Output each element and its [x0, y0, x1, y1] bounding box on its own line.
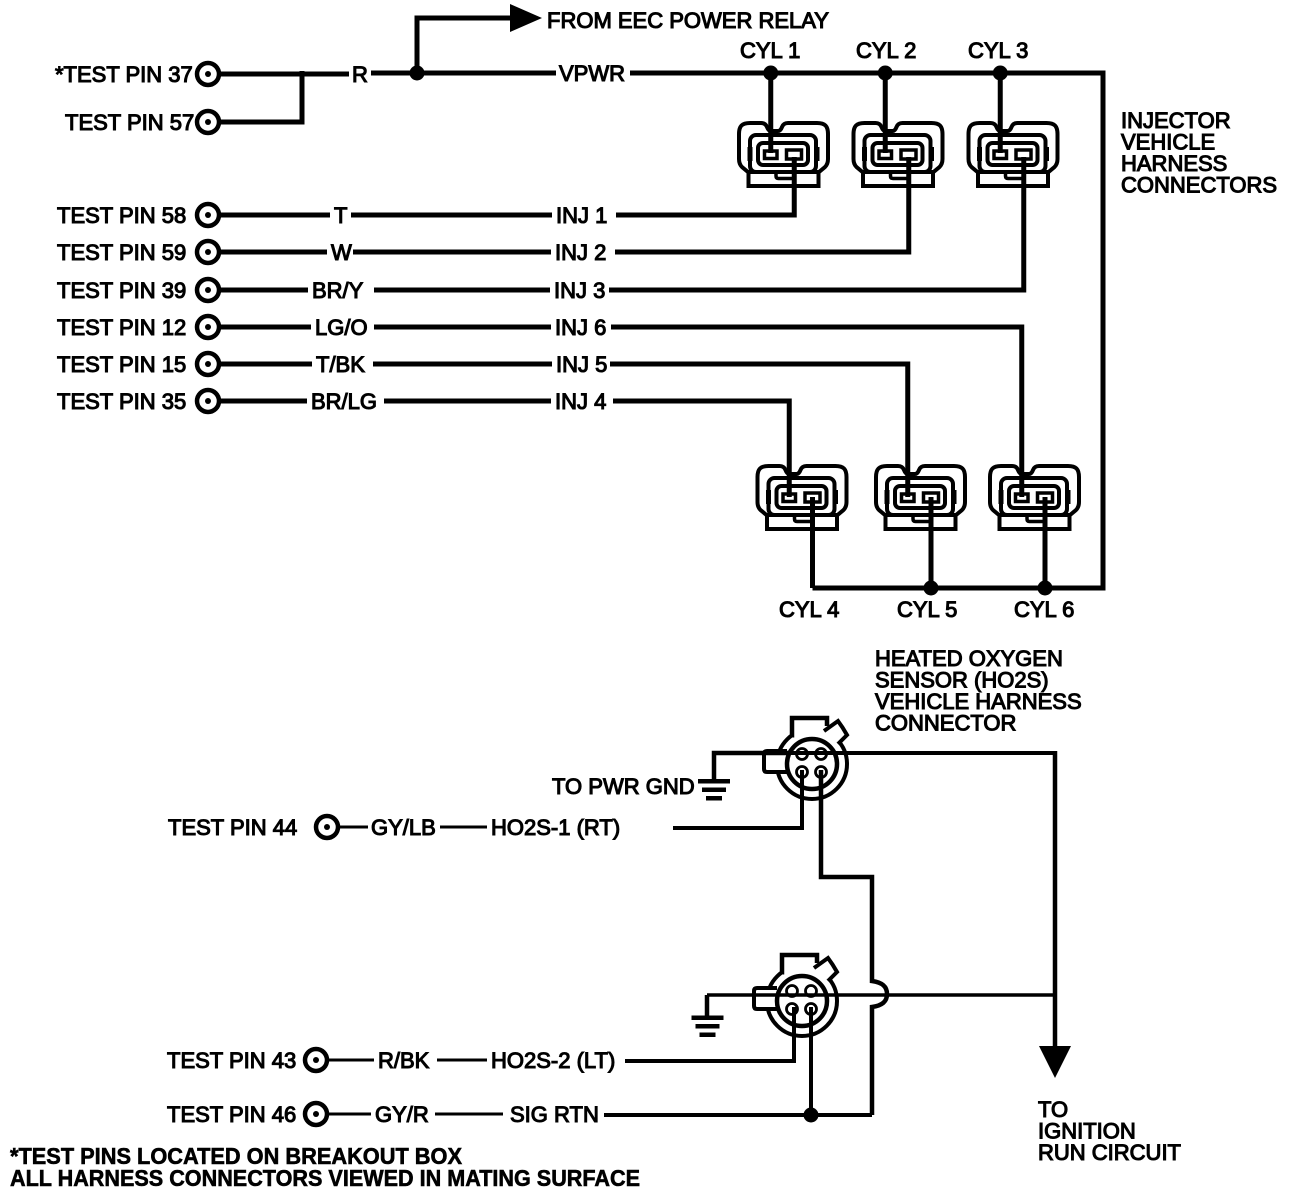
svg-text:INJ 4: INJ 4 [555, 389, 606, 414]
svg-text:CYL 1: CYL 1 [740, 38, 800, 63]
svg-text:BR/LG: BR/LG [311, 389, 377, 414]
svg-text:TEST PIN 44: TEST PIN 44 [168, 815, 297, 840]
svg-text:INJ 6: INJ 6 [555, 315, 606, 340]
svg-text:TEST PIN 35: TEST PIN 35 [57, 389, 186, 414]
svg-text:RUN CIRCUIT: RUN CIRCUIT [1038, 1140, 1181, 1165]
svg-text:TEST PIN 43: TEST PIN 43 [167, 1048, 296, 1073]
svg-text:LG/O: LG/O [315, 315, 368, 340]
svg-text:TEST PIN 46: TEST PIN 46 [167, 1102, 296, 1127]
svg-text:INJ 1: INJ 1 [556, 203, 607, 228]
svg-text:INJ 5: INJ 5 [556, 352, 607, 377]
svg-text:T: T [334, 203, 347, 228]
svg-text:INJ 2: INJ 2 [555, 240, 606, 265]
svg-text:TEST PIN 57: TEST PIN 57 [65, 110, 194, 135]
svg-text:BR/Y: BR/Y [312, 278, 364, 303]
svg-text:TEST PIN 12: TEST PIN 12 [57, 315, 186, 340]
svg-text:TEST PIN 58: TEST PIN 58 [57, 203, 186, 228]
svg-text:HO2S-1 (RT): HO2S-1 (RT) [491, 815, 620, 840]
svg-text:VPWR: VPWR [559, 61, 625, 86]
svg-text:CYL 2: CYL 2 [856, 38, 916, 63]
svg-text:SIG RTN: SIG RTN [510, 1102, 599, 1127]
svg-text:CYL 6: CYL 6 [1014, 597, 1074, 622]
svg-text:ALL HARNESS CONNECTORS VIEWED: ALL HARNESS CONNECTORS VIEWED IN MATING … [10, 1165, 640, 1191]
svg-text:CYL 4: CYL 4 [779, 597, 839, 622]
svg-text:T/BK: T/BK [316, 352, 365, 377]
svg-text:R/BK: R/BK [378, 1048, 430, 1073]
svg-text:CYL 3: CYL 3 [968, 38, 1028, 63]
svg-text:FROM EEC POWER RELAY: FROM EEC POWER RELAY [547, 8, 829, 33]
svg-text:CONNECTOR: CONNECTOR [875, 711, 1016, 736]
svg-text:INJ 3: INJ 3 [554, 278, 605, 303]
svg-text:R: R [352, 62, 368, 87]
svg-text:TEST PIN 39: TEST PIN 39 [57, 278, 186, 303]
svg-text:HO2S-2 (LT): HO2S-2 (LT) [491, 1048, 615, 1073]
svg-text:GY/R: GY/R [375, 1102, 429, 1127]
svg-text:W: W [331, 240, 352, 265]
svg-text:CYL 5: CYL 5 [897, 597, 957, 622]
svg-text:*TEST PIN 37: *TEST PIN 37 [55, 62, 193, 87]
svg-text:GY/LB: GY/LB [371, 815, 436, 840]
svg-text:CONNECTORS: CONNECTORS [1121, 173, 1277, 198]
svg-text:TEST PIN 59: TEST PIN 59 [57, 240, 186, 265]
svg-text:TO PWR GND: TO PWR GND [552, 774, 695, 799]
svg-text:TEST PIN 15: TEST PIN 15 [57, 352, 186, 377]
